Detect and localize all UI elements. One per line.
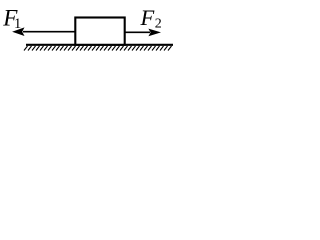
svg-text:F2: F2 bbox=[140, 5, 162, 32]
force arrow F2 (right) bbox=[126, 29, 162, 37]
ground line bbox=[26, 44, 173, 46]
force arrow F1 (left) bbox=[12, 27, 75, 36]
block (mass) bbox=[75, 18, 124, 45]
ground hatching bbox=[24, 46, 172, 51]
svg-text:F1: F1 bbox=[2, 5, 21, 32]
